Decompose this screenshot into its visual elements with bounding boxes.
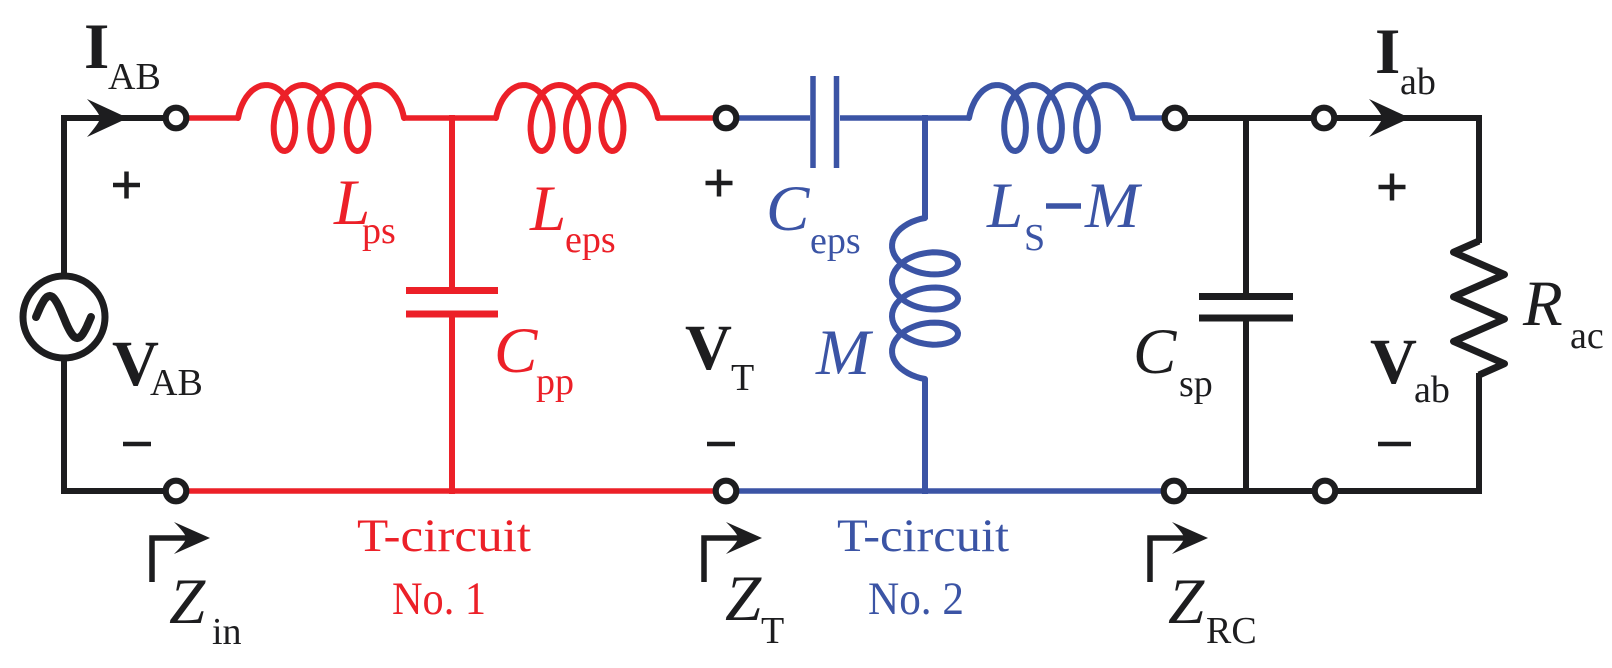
wire right vertical top bbox=[1476, 115, 1482, 243]
wire blue top: LS-M to node ZRC bbox=[1133, 115, 1165, 121]
wire left vertical top bbox=[61, 118, 67, 276]
label minus Vab bbox=[1378, 442, 1411, 447]
inductor Lps bbox=[238, 85, 404, 151]
wire left vertical bottom bbox=[61, 358, 67, 494]
svg-text:C: C bbox=[494, 315, 538, 387]
wire blue top: node VT to Ceps bbox=[736, 115, 810, 121]
label VAB bbox=[112, 328, 203, 404]
capacitor Cpp bbox=[406, 115, 498, 494]
arrow IAB current direction bbox=[87, 99, 128, 137]
wire M branch vertical bottom bbox=[922, 379, 928, 494]
svg-text:M: M bbox=[1084, 170, 1143, 242]
wire red top: Leps to node VT bbox=[658, 115, 716, 121]
svg-text:I: I bbox=[1375, 16, 1400, 88]
label Zin bbox=[169, 566, 242, 653]
label ZT bbox=[725, 563, 784, 652]
svg-text:L: L bbox=[986, 170, 1023, 242]
label Csp bbox=[1133, 316, 1213, 405]
label VT bbox=[685, 312, 754, 399]
svg-text:sp: sp bbox=[1179, 363, 1213, 405]
label IAB bbox=[84, 11, 161, 98]
terminal node ZRC bottom bbox=[1164, 481, 1185, 502]
wire black top: node ab to right corner bbox=[1334, 115, 1482, 121]
label Cpp bbox=[494, 315, 574, 403]
svg-text:ps: ps bbox=[362, 210, 396, 252]
svg-text:in: in bbox=[212, 611, 242, 653]
arrow ZT impedance bbox=[704, 538, 740, 582]
terminal node ab bottom bbox=[1315, 481, 1336, 502]
label Rac bbox=[1522, 268, 1604, 357]
wire bottom left horizontal bbox=[61, 488, 166, 494]
label LS minus M bbox=[986, 170, 1143, 259]
source VAB ac source bbox=[23, 276, 105, 358]
wire top left horizontal bbox=[61, 115, 166, 121]
label T-circuit No.1 bbox=[357, 510, 531, 625]
svg-text:M: M bbox=[815, 317, 874, 389]
arrow Zin impedance bbox=[152, 538, 188, 582]
svg-text:I: I bbox=[84, 11, 109, 83]
label Ceps bbox=[766, 173, 861, 262]
wire right vertical bottom bbox=[1476, 373, 1482, 494]
svg-text:C: C bbox=[1133, 316, 1177, 388]
svg-text:T: T bbox=[761, 610, 784, 652]
resistor Rac zigzag bbox=[1454, 241, 1505, 375]
capacitor Csp bbox=[1199, 115, 1293, 494]
svg-text:L: L bbox=[529, 173, 566, 245]
svg-text:Z: Z bbox=[725, 563, 762, 635]
wire blue bottom rail bbox=[736, 488, 1164, 494]
label plus VAB bbox=[113, 172, 140, 199]
wire M branch vertical top bbox=[922, 115, 928, 219]
svg-text:C: C bbox=[766, 173, 810, 245]
svg-text:pp: pp bbox=[536, 361, 574, 403]
terminal node A bottom bbox=[166, 481, 187, 502]
inductor M bbox=[892, 218, 958, 379]
svg-text:ab: ab bbox=[1414, 369, 1450, 411]
svg-text:No. 1: No. 1 bbox=[392, 573, 486, 625]
wire red top: Lps to Leps with Cpp tap bbox=[404, 115, 497, 121]
label Leps bbox=[529, 173, 616, 261]
label ZRC bbox=[1168, 566, 1257, 652]
svg-text:T-circuit: T-circuit bbox=[837, 510, 1009, 562]
svg-text:Z: Z bbox=[169, 566, 206, 638]
svg-text:ac: ac bbox=[1570, 315, 1604, 357]
svg-text:AB: AB bbox=[150, 362, 203, 404]
svg-text:ab: ab bbox=[1400, 61, 1436, 103]
svg-text:eps: eps bbox=[810, 220, 861, 262]
wire black bottom: node to right corner bbox=[1335, 488, 1482, 494]
svg-text:S: S bbox=[1024, 217, 1045, 259]
label minus VT bbox=[707, 442, 735, 447]
label Lps bbox=[333, 167, 396, 252]
svg-text:RC: RC bbox=[1206, 610, 1257, 652]
svg-text:V: V bbox=[1370, 326, 1417, 398]
wire red bottom rail bbox=[186, 488, 716, 494]
label Vab bbox=[1370, 326, 1450, 411]
label plus Vab bbox=[1379, 174, 1406, 201]
terminal node VT bottom bbox=[716, 481, 737, 502]
svg-text:eps: eps bbox=[565, 219, 616, 261]
svg-text:Z: Z bbox=[1168, 566, 1205, 638]
label plus VT bbox=[706, 170, 733, 197]
label Iab bbox=[1375, 16, 1436, 103]
arrow ZRC impedance bbox=[1150, 538, 1186, 582]
capacitor Ceps bbox=[813, 76, 837, 168]
svg-text:T: T bbox=[731, 357, 754, 399]
terminal node ZRC top bbox=[1165, 108, 1186, 129]
arrow Iab current direction bbox=[1369, 99, 1410, 137]
terminal node ab top bbox=[1314, 108, 1335, 129]
wire black top: node ZRC to node ab bbox=[1185, 115, 1314, 121]
svg-text:AB: AB bbox=[108, 56, 161, 98]
inductor Leps bbox=[496, 85, 658, 151]
inductor LS-M bbox=[969, 85, 1133, 151]
terminal node VT top bbox=[716, 108, 737, 129]
svg-text:T-circuit: T-circuit bbox=[357, 510, 531, 562]
svg-text:V: V bbox=[685, 312, 732, 384]
svg-text:No. 2: No. 2 bbox=[868, 573, 964, 625]
svg-text:R: R bbox=[1522, 268, 1563, 340]
label minus VAB bbox=[123, 442, 151, 447]
wire red top: node A to Lps bbox=[186, 115, 239, 121]
label T-circuit No.2 bbox=[837, 510, 1009, 625]
terminal node A top bbox=[166, 108, 187, 129]
wire black bottom: ZRC node to ab node bbox=[1184, 488, 1315, 494]
wire blue top: Ceps to LS-M with M tap bbox=[840, 115, 968, 121]
